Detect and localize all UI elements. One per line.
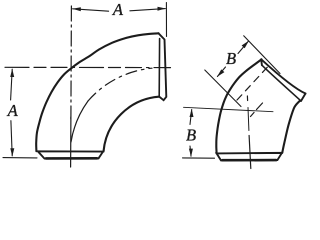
right end-face band outer xyxy=(159,33,167,100)
elbow centerline arc (dash-dot) xyxy=(88,68,152,101)
svg-text:A: A xyxy=(112,0,124,19)
horizontal centerline xyxy=(5,66,171,68)
vertical centerline of lower leg xyxy=(246,96,248,101)
inner arc xyxy=(104,97,159,152)
extra centre dashes xyxy=(257,103,263,110)
right arrowhead xyxy=(158,7,166,11)
bottom end-face band xyxy=(38,151,103,158)
dim line lower segment xyxy=(190,146,191,156)
dim line upper segment xyxy=(11,69,13,100)
svg-text:B: B xyxy=(186,126,196,145)
dim line upper segment xyxy=(190,110,192,125)
outer arc xyxy=(36,33,158,151)
extension line right xyxy=(165,3,167,37)
upper arrowhead xyxy=(10,69,14,77)
left outer outline xyxy=(216,59,261,153)
45 bottom band lower edge emphasis xyxy=(223,159,277,162)
extension line through centre xyxy=(205,70,241,107)
top extension line xyxy=(184,107,274,111)
upper end-face inner edge xyxy=(262,65,301,101)
dim line left segment xyxy=(73,9,109,11)
bottom end-face band xyxy=(217,153,282,161)
extension line along face plane xyxy=(244,36,280,74)
right end-face band inner edge xyxy=(158,39,160,97)
upper end-face far edge xyxy=(301,94,306,102)
bottom extension line xyxy=(183,157,215,159)
left arrowhead xyxy=(72,7,81,11)
right inner outline xyxy=(282,101,300,153)
upper end-face band outer edge xyxy=(261,59,305,93)
svg-text:B: B xyxy=(226,49,236,68)
upper end-face near edge xyxy=(260,59,263,65)
vertical centerline xyxy=(70,6,73,119)
lower arrowhead xyxy=(10,148,14,156)
dim line upper-right segment with arrow xyxy=(238,41,248,53)
lower arrowhead xyxy=(189,149,193,157)
bottom band lower edge emphasis xyxy=(46,157,97,160)
dim line right segment xyxy=(130,9,165,11)
upper arrowhead xyxy=(190,109,194,117)
bottom extension line xyxy=(3,157,37,159)
elbow centerline arc lower solid part xyxy=(71,101,88,142)
dim line lower-left segment with arrow xyxy=(217,67,225,77)
45-degree axis centerline xyxy=(237,67,268,100)
dim line lower segment xyxy=(11,121,12,156)
svg-text:A: A xyxy=(7,101,19,120)
